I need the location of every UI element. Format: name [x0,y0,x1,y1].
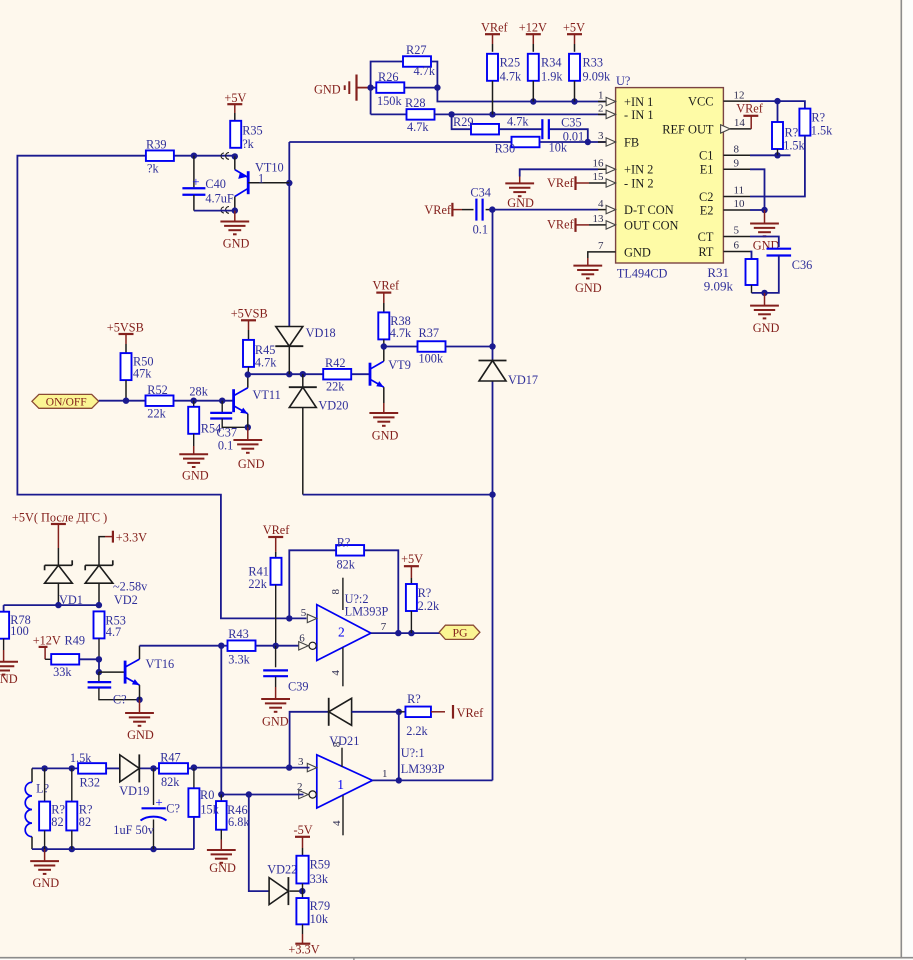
capacitor C37 0.1 [210,401,251,453]
svg-text:C34: C34 [470,185,491,199]
svg-text:VRef: VRef [424,203,452,217]
resistor R49 33k [51,634,102,679]
svg-text:33k: 33k [310,872,329,886]
capacitor C34 0.1 [462,185,492,236]
resistor R? 2.2k (PG pullup) [406,584,440,633]
ground GND (VT11) [233,427,264,471]
svg-text:4: 4 [598,198,604,210]
ground GND (E1/E2) [750,210,779,253]
svg-text:R?: R? [418,586,432,600]
svg-text:+IN 2: +IN 2 [624,163,653,177]
svg-text:1.5k: 1.5k [783,139,805,153]
svg-text:4.7k: 4.7k [255,355,277,369]
svg-text:+3.3V: +3.3V [116,531,147,545]
resistor R37 100k [384,326,493,365]
diode VD19 [119,754,149,798]
svg-text:FB: FB [624,135,639,149]
resistor R59 33k [296,856,330,891]
svg-text:+IN 1: +IN 1 [624,95,653,109]
svg-text:47k: 47k [133,366,152,380]
svg-text:VD18: VD18 [306,326,336,340]
diode VD21 [290,698,402,768]
resistor R47 82k [159,750,197,789]
resistor R43 3.3k [228,627,256,666]
svg-text:8: 8 [734,144,740,156]
svg-text:- IN 1: - IN 1 [624,108,654,122]
op-amp U7:1 LM393P [317,741,445,835]
svg-text:R27: R27 [406,43,427,57]
svg-text:VD22: VD22 [267,862,297,876]
diode VD18 [275,326,335,374]
ground GND (pin 16) [505,177,534,211]
resistor R34 1.9k [528,54,564,102]
svg-text:R35: R35 [242,124,263,138]
svg-text:10: 10 [734,198,746,210]
pin 13 OUT CON [593,213,679,232]
wire net +IN2 (pin 16) [520,169,598,176]
svg-text:OUT CON: OUT CON [624,218,679,232]
svg-text:C?: C? [113,692,127,706]
svg-text:2: 2 [297,781,303,793]
svg-text:100k: 100k [419,351,444,365]
svg-text:R29: R29 [453,115,474,129]
capacitor C35 0.01 [542,115,584,143]
svg-text:4.7k: 4.7k [507,115,529,129]
svg-text:R52: R52 [147,383,168,397]
svg-text:1.9k: 1.9k [541,69,563,83]
wire net VD20 anode to D-T riser [303,494,493,496]
svg-text:2.2k: 2.2k [406,724,428,738]
svg-text:4.7: 4.7 [106,625,121,639]
svg-text:GND: GND [753,321,780,335]
wire net ON/OFF to VT11 base [99,398,234,404]
power +5V (PG pullup) [401,552,423,584]
svg-text:U?: U? [616,74,630,88]
wire net R53 bottom to VT16 base [96,659,125,675]
svg-text:22k: 22k [326,380,345,394]
power +3.3V (R79) [288,934,319,957]
svg-text:100: 100 [10,624,28,638]
svg-text:R39: R39 [146,138,167,152]
resistor R30 10k [495,137,568,156]
diode VD2 (zener) [85,560,148,607]
diode VD17 [479,361,539,388]
ground GND (VT9) [369,403,398,442]
wire net C1 (pin 8) [750,149,791,159]
resistor R? 1.5k (left, VCC to C1) [772,122,806,153]
svg-text:4.7k: 4.7k [500,69,522,83]
pin 2 arrow+bubble (U7:1 -) [297,781,316,799]
svg-text:R?: R? [407,692,421,706]
pin 9 E1 [700,158,750,177]
resistor R46 6.8k [216,795,250,840]
svg-text:5: 5 [734,225,740,237]
svg-text:L?: L? [36,781,49,795]
svg-text:+5V: +5V [401,552,423,566]
wire net D-T CON (pin 4) [489,206,598,212]
svg-text:7: 7 [598,240,604,252]
power +12V (R34) [519,21,547,52]
capacitor C39 [263,646,308,694]
ground GND (R54) [179,446,208,482]
svg-text:C?: C? [166,801,180,815]
transistor VT16 (NPN) [125,646,174,700]
capacitor C? (VT16 base) [88,672,143,706]
svg-text:9.09k: 9.09k [704,279,734,294]
pin 3 FB [598,130,639,149]
pin 5 arrow (U7:2 +) [301,607,317,623]
diode VD22 [267,862,305,905]
svg-text:GND: GND [0,672,18,686]
svg-text:4: 4 [331,820,343,826]
resistor R? 82 (second) [66,768,92,849]
svg-text:10k: 10k [549,141,568,155]
svg-text:+5V: +5V [563,21,585,35]
ground GND (R78) [0,650,18,686]
svg-text:R0: R0 [200,788,214,802]
pin 10 E2 [700,198,750,217]
svg-text:GND: GND [182,468,209,482]
resistor R78 100 [0,612,31,650]
svg-text:GND: GND [624,245,651,259]
svg-text:C2: C2 [699,190,713,204]
resistor R52 22k [146,383,174,420]
ground GND (VT16) [125,700,154,742]
wire net VT11 collector node (y=374) [245,371,370,378]
svg-text:2: 2 [338,624,345,639]
ground GND (R31/C36) [750,293,779,335]
ground GND (VT10) [220,211,249,251]
power +5V (VT10) [224,91,246,121]
svg-text:C1: C1 [699,149,713,163]
svg-text:4.7k: 4.7k [407,120,429,134]
ground GND (R46) [207,840,236,876]
svg-text:4.7k: 4.7k [390,326,412,340]
svg-text:2: 2 [598,103,604,115]
resistor R27 4.7k [403,43,436,78]
ground GND (pin 7) [573,252,602,295]
svg-text:LM393P: LM393P [401,762,445,776]
svg-text:16: 16 [593,158,605,170]
resistor R26 150k [376,70,404,108]
power VRef (pin 13) [547,217,598,232]
svg-text:+: + [192,174,199,189]
capacitor C36 [752,249,813,296]
wire net VD1/VD2 bottom rail [4,602,103,612]
svg-text:GND: GND [127,728,154,742]
resistor R? 1.5k (right, VCC to C2) [799,109,833,138]
svg-text:REF OUT: REF OUT [662,122,714,136]
svg-text:8: 8 [331,741,343,747]
svg-text:9.09k: 9.09k [583,69,612,83]
wire net D-T riser x=492 down to U7:1 output [489,210,495,781]
svg-text:+5VSB: +5VSB [107,320,144,334]
pin 16 +IN 2 [593,158,654,177]
svg-text:6: 6 [299,633,305,645]
op-amp U7:2 LM393P [317,578,389,687]
pin 6 RT [698,240,750,259]
svg-text:1: 1 [337,777,344,792]
svg-text:+5V: +5V [224,91,246,105]
svg-text:R?: R? [785,126,799,140]
resistor R79 10k [296,891,330,934]
svg-text:LM393P: LM393P [345,605,389,619]
wire net GND loop to R27/R26/R28 [367,62,440,115]
wire net +IN1 (pin 1) [437,88,606,105]
svg-text:+: + [155,794,162,809]
svg-text:15: 15 [593,171,605,183]
svg-text:GND: GND [753,239,780,253]
svg-text:R47: R47 [160,750,181,764]
inductor L? [25,768,49,849]
svg-text:VD17: VD17 [508,373,538,387]
svg-text:+12V: +12V [33,634,61,648]
svg-text:GND: GND [262,715,289,729]
svg-text:R32: R32 [80,775,101,789]
svg-text:150k: 150k [377,94,402,108]
resistor R35 [230,121,263,151]
svg-text:82: 82 [51,815,63,829]
svg-text:6.8k: 6.8k [228,815,250,829]
pin 4 D-T CON [598,198,674,217]
svg-text:CT: CT [698,230,714,244]
resistor R29 4.7k [453,115,529,135]
svg-text:RT: RT [698,245,714,259]
svg-text:R49: R49 [65,634,86,648]
port ON/OFF [32,394,99,408]
svg-text:10k: 10k [310,912,329,926]
svg-text:3.3k: 3.3k [228,653,250,667]
svg-text:+12V: +12V [519,21,547,35]
svg-text:8: 8 [330,589,342,595]
power VRef (R38) [373,279,401,313]
transistor VT9 (NPN) [370,347,411,404]
wire net FB-left: R39 to U1 pin3 FB, via VT10 base riser [17,139,606,622]
svg-text:C35: C35 [561,115,582,129]
svg-text:VRef: VRef [263,523,291,537]
resistor R? 82k (feedback) [336,536,364,572]
wire net VT16 collector to R43 [140,645,222,647]
pin 2 - IN 1 [598,103,654,122]
wire net R43 junction riser down [220,646,222,795]
power VRef (R25) [481,21,509,52]
power VRef (pin 15) [547,176,598,190]
wire net VCC (pin 12) [750,98,805,122]
svg-text:6: 6 [734,240,740,252]
resistor R? 82 (first) [39,768,65,849]
wire net U7:1 output (pin 1) [372,768,492,780]
op-amp/PWM IC U? TL494CD body [616,74,724,280]
wire net CT (pin 5) to C36 [750,237,779,248]
pin 1 +IN 1 [598,90,653,109]
pin 6 arrow+bubble (U7:2 -) [299,633,317,651]
ground GND (bottom rail) [30,849,59,890]
resistor R50 47k [121,353,154,401]
power +3.3V (VD2) [99,531,147,566]
svg-text:VCC: VCC [688,95,713,109]
svg-text:14: 14 [734,117,746,129]
svg-text:TL494CD: TL494CD [617,266,668,280]
svg-text:1.5k: 1.5k [70,751,92,765]
wire net PG output (pin 7) [371,621,440,637]
svg-text:VD2: VD2 [114,593,138,607]
svg-text:GND: GND [372,428,399,442]
resistor R41 22k [248,558,281,646]
pin 15 - IN 2 [593,171,654,190]
power VRef (pin 14) [736,102,764,129]
port PG [439,625,480,639]
svg-text:- IN 2: - IN 2 [624,176,654,190]
svg-text:ON/OFF: ON/OFF [46,396,87,408]
wire net -IN1 (pin 2) [434,111,606,117]
svg-text:4: 4 [330,670,342,676]
svg-text:+5V( После ДГС ): +5V( После ДГС ) [12,510,107,524]
diode VD20 [289,374,349,494]
power +5VSB (R45) [231,307,268,340]
svg-text:U?:1: U?:1 [401,746,425,760]
capacitor C40 4.7uF electrolytic [182,156,238,214]
svg-text:1.5k: 1.5k [811,124,833,138]
svg-text:5: 5 [301,607,307,619]
svg-text:0.1: 0.1 [218,439,233,453]
svg-text:+5VSB: +5VSB [231,307,268,321]
svg-text:R26: R26 [378,70,399,84]
svg-text:R34: R34 [541,56,562,70]
resistor R42 22k [323,356,351,394]
resistor R28 4.7k [405,96,435,134]
svg-text:C36: C36 [792,258,813,272]
power +5VSB (R50) [107,320,144,352]
svg-text:C40: C40 [205,177,226,191]
svg-text:D-T CON: D-T CON [624,203,674,217]
wire hop arcs at VT10 collector junction [221,207,229,214]
svg-text:E2: E2 [700,203,714,217]
resistor R54 [188,401,221,446]
ground GND net symbol (left-pointing earth) [314,75,371,101]
resistor R25 4.7k [487,54,522,115]
svg-text:GND: GND [314,83,341,97]
svg-text:2.2k: 2.2k [418,599,440,613]
pin 12 VCC [688,89,750,108]
svg-text:VRef: VRef [373,279,401,293]
wire net R?right to pin 11 C2 [750,136,805,197]
pin 7 GND [598,240,651,259]
wire net bottom rail [32,817,194,852]
svg-text:12: 12 [734,89,745,101]
svg-text:1: 1 [598,90,604,102]
svg-text:R?: R? [811,111,825,125]
resistor R? 2.2k (U7:1) [399,692,431,738]
node label 28k [189,384,208,398]
resistor R38 4.7k [378,312,412,349]
resistor R32 1.5k [70,751,106,790]
power VRef (R41) [263,523,291,558]
svg-text:VRef: VRef [481,21,509,35]
svg-text:4.7uF: 4.7uF [205,192,234,206]
svg-text:VT16: VT16 [146,657,175,671]
svg-text:?k: ?k [147,162,159,176]
svg-text:E1: E1 [700,163,714,177]
wire net R29/C35 branch [452,114,588,142]
power VRef (R? 2.2k) [431,705,484,720]
power -5V (R59) [294,823,313,856]
svg-text:VRef: VRef [736,102,764,116]
svg-text:VD19: VD19 [119,784,149,798]
power VRef (C34) [424,203,462,217]
svg-text:0.1: 0.1 [473,223,488,237]
wire net 82k feedback loop [289,550,398,633]
svg-text:GND: GND [209,861,236,875]
wire net pin 2 line [218,791,303,797]
svg-text:GND: GND [223,237,250,251]
svg-text:+3.3V: +3.3V [288,943,319,957]
wire net top rail (pin3 line left) [32,765,194,771]
svg-text:13: 13 [593,213,605,225]
svg-text:R42: R42 [325,356,346,370]
svg-text:?k: ?k [242,137,254,151]
svg-text:3: 3 [298,756,304,768]
svg-text:R25: R25 [500,56,520,70]
svg-text:VRef: VRef [547,217,575,231]
power +5V( After DGS ) [12,510,107,565]
svg-text:GND: GND [507,196,534,210]
svg-text:3: 3 [598,130,604,142]
svg-text:82k: 82k [161,775,180,789]
wire net RT (pin 6) to R31 [750,252,752,260]
svg-text:1: 1 [258,172,264,186]
svg-text:R59: R59 [310,858,331,872]
svg-text:R33: R33 [583,56,604,70]
pin 14 REF OUT [662,117,751,136]
svg-text:22k: 22k [147,406,166,420]
wire net VD21 riser to output [396,712,402,784]
svg-text:R43: R43 [228,627,249,641]
resistor R31 9.09k [704,259,758,294]
diode VD1 (zener) [45,560,83,607]
resistor R53 4.7 [94,611,126,659]
svg-text:82k: 82k [337,558,356,572]
resistor R0 15k [188,768,219,816]
svg-text:28k: 28k [189,384,208,398]
svg-text:82: 82 [79,815,91,829]
pin 11 C2 [699,185,750,204]
power +12V (R49) [33,634,61,660]
svg-text:VRef: VRef [457,706,485,720]
capacitor C? 1uF 50v electrolytic [113,768,180,849]
svg-text:15k: 15k [200,802,219,816]
pin 8 C1 [699,144,750,163]
svg-text:C39: C39 [288,680,309,694]
svg-text:PG: PG [453,626,469,640]
svg-text:1uF 50v: 1uF 50v [113,823,155,837]
wire net pin 3 line [191,764,310,770]
wire net E1/E2 tied (pins 9,10) [750,169,768,213]
svg-text:9: 9 [734,158,740,170]
svg-text:-5V: -5V [294,823,313,837]
svg-text:R37: R37 [419,326,440,340]
power +5V (R33) [563,21,585,52]
svg-text:~2.58v: ~2.58v [113,580,148,594]
svg-text:22k: 22k [248,577,267,591]
wire net VD22 branch [249,795,269,892]
svg-text:1: 1 [382,768,388,780]
svg-text:VT11: VT11 [253,388,281,402]
svg-text:VT9: VT9 [388,358,411,372]
svg-text:33k: 33k [53,665,72,679]
svg-text:7: 7 [381,621,387,633]
transistor VT11 (NPN) [234,375,281,428]
svg-text:R30: R30 [495,142,515,156]
